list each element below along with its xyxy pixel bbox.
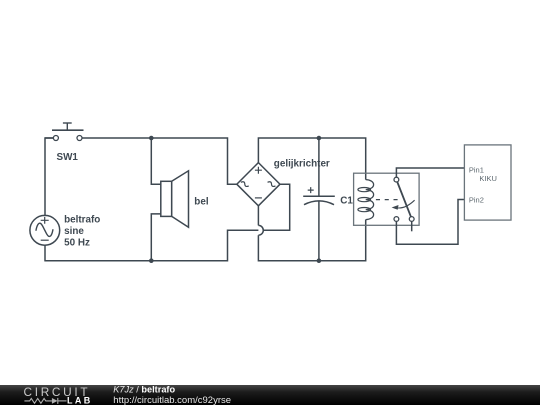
relay actuation arrow: [397, 200, 414, 208]
relay box: [354, 173, 420, 225]
sine squiggle: [36, 223, 53, 236]
KIKU box: [464, 145, 511, 220]
label bel: [194, 196, 209, 207]
SW1 left contact: [53, 136, 58, 141]
svg-text:K7Jz / beltrafo: K7Jz / beltrafo: [113, 385, 175, 395]
switch SW1: [45, 123, 84, 141]
node: junction DC- / C1: [317, 258, 322, 263]
relay actuation dashed link: [376, 199, 399, 201]
svg-text:http://circuitlab.com/c92yrse: http://circuitlab.com/c92yrse: [113, 395, 231, 405]
relay coil L: [358, 180, 374, 220]
C1 top plate: [303, 195, 335, 197]
SW1 actuator stem: [66, 123, 68, 130]
SW1 actuator cap: [63, 122, 72, 124]
label gelijkrichter: [274, 158, 330, 169]
logo doodle wire+resistor+diode: [24, 398, 66, 404]
svg-text:beltrafo: beltrafo: [64, 215, 100, 226]
wire: speaker top branch: [151, 138, 161, 184]
wire: C1 top lead: [318, 138, 320, 196]
speaker body: [161, 181, 172, 216]
svg-text:bel: bel: [194, 196, 209, 207]
wire: source top lead: [45, 138, 53, 215]
SW1 bar: [52, 129, 84, 131]
speaker bel: [151, 138, 188, 261]
C1 polarity plus: [308, 187, 314, 193]
wire: C1 bottom lead: [318, 202, 320, 261]
svg-text:LAB: LAB: [67, 395, 93, 405]
wire: source bottom lead: [44, 245, 46, 261]
labels Pin1 KIKU Pin2: [469, 165, 497, 204]
wire: bottom AC rail, up and over to bridge right vertex: [45, 184, 290, 261]
wire: speaker bottom branch: [151, 214, 161, 261]
label C1: [340, 195, 353, 206]
voltage source V1 beltrafo: [30, 138, 60, 261]
bridge plus: [255, 167, 262, 174]
bridge rectifier gelijkrichter: [237, 163, 280, 206]
minus sign of source: [41, 239, 49, 241]
node: junction bottom rail / speaker: [149, 258, 154, 263]
relay switch arm: [397, 182, 411, 217]
svg-text:gelijkrichter: gelijkrichter: [274, 158, 330, 169]
svg-text:C1: C1: [340, 195, 353, 206]
node: junction DC+ / C1: [317, 136, 322, 141]
bridge minus: [255, 197, 262, 199]
wire hop over AC return: [258, 225, 263, 235]
svg-text:Pin2: Pin2: [469, 195, 484, 204]
svg-text:sine: sine: [64, 226, 84, 237]
plus sign of source: [41, 217, 49, 224]
wire: relay NO contact stub: [411, 221, 413, 231]
bridge right tilde: [268, 181, 276, 188]
label beltrafo / sine / 50 Hz: [64, 215, 100, 249]
wire: bottom DC rail up into relay coil: [258, 220, 365, 261]
wire: bridge - down with hop: [257, 206, 259, 226]
node: junction top rail / speaker: [149, 136, 154, 141]
relay switch contacts: [392, 177, 415, 221]
label SW1: [57, 152, 79, 163]
speaker cone: [172, 171, 189, 228]
svg-text:50 Hz: 50 Hz: [64, 237, 90, 248]
wire to SW1 left: [45, 137, 53, 139]
bridge left tilde: [241, 181, 249, 188]
wire: bridge + up to top DC rail, down into relay: [258, 138, 365, 180]
wire: relay NC contact to Pin2: [396, 200, 464, 245]
svg-text:KIKU: KIKU: [479, 174, 497, 183]
SW1 right contact: [77, 136, 82, 141]
svg-text:SW1: SW1: [57, 152, 79, 163]
wire: relay common to Pin1: [396, 168, 464, 177]
wire: top AC rail down to bridge left vertex: [82, 138, 237, 184]
capacitor C1: [303, 138, 335, 261]
C1 bottom plate (curved): [304, 201, 334, 205]
